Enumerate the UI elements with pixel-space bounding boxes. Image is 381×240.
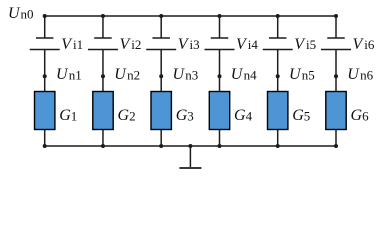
wire branch 5 top stub: [277, 16, 279, 38]
svg-text:Un4: Un4: [231, 66, 257, 83]
voltage source Vi1: [30, 38, 60, 50]
node n1 dot: [43, 74, 47, 78]
conductance G1 (resistor box): [35, 92, 55, 130]
wire branch 3 bottom segment: [160, 130, 162, 147]
ground stub wire: [189, 146, 191, 167]
svg-text:Vi2: Vi2: [120, 36, 142, 53]
junction branch 6 top: [334, 14, 338, 18]
junction ground: [188, 144, 192, 148]
junction branch 2 bottom: [101, 144, 105, 148]
wire branch 1 top stub: [44, 16, 46, 38]
junction branch 2 top: [101, 14, 105, 18]
conductance G3 (resistor box): [151, 92, 171, 130]
svg-text:G6: G6: [351, 107, 370, 124]
svg-text:Un3: Un3: [173, 66, 199, 83]
junction branch 1 bottom: [43, 144, 47, 148]
wire branch 3 middle segment: [160, 50, 162, 92]
svg-text:Un1: Un1: [56, 66, 82, 83]
voltage source Vi3: [146, 38, 176, 50]
svg-text:Vi6: Vi6: [353, 36, 375, 53]
svg-text:Vi1: Vi1: [61, 36, 83, 53]
junction branch 3 top: [159, 14, 163, 18]
conductance G5 (resistor box): [268, 92, 288, 130]
svg-text:Vi4: Vi4: [236, 36, 258, 53]
wire bottom rail ground net: [45, 145, 336, 147]
wire branch 2 bottom segment: [102, 130, 104, 147]
svg-text:Vi5: Vi5: [294, 36, 316, 53]
node n2 dot: [101, 74, 105, 78]
junction branch 6 bottom: [334, 144, 338, 148]
svg-text:G4: G4: [234, 107, 253, 124]
conductance G6 (resistor box): [326, 92, 346, 130]
wire branch 1 bottom segment: [44, 130, 46, 147]
junction branch 4 top: [218, 14, 222, 18]
node n5 dot: [276, 74, 280, 78]
svg-text:Un6: Un6: [347, 66, 373, 83]
voltage source Vi2: [88, 38, 118, 50]
junction branch 5 top: [276, 14, 280, 18]
wire branch 6 top stub: [335, 16, 337, 38]
conductance G4 (resistor box): [209, 92, 229, 130]
svg-text:Un2: Un2: [114, 66, 140, 83]
node n6 dot: [334, 74, 338, 78]
voltage source Vi6: [321, 38, 351, 50]
svg-text:Un5: Un5: [289, 66, 315, 83]
wire branch 4 middle segment: [219, 50, 221, 92]
wire branch 4 top stub: [219, 16, 221, 38]
wire branch 2 top stub: [102, 16, 104, 38]
conductance G2 (resistor box): [93, 92, 113, 130]
wire top rail node n0: [45, 15, 336, 17]
wire branch 6 bottom segment: [335, 130, 337, 147]
voltage source Vi5: [263, 38, 293, 50]
svg-text:Vi3: Vi3: [178, 36, 200, 53]
node n3 dot: [159, 74, 163, 78]
voltage source Vi4: [205, 38, 235, 50]
svg-text:G3: G3: [176, 107, 194, 124]
svg-text:G2: G2: [118, 107, 136, 124]
svg-text:G5: G5: [292, 107, 310, 124]
wire branch 5 middle segment: [277, 50, 279, 92]
junction branch 4 bottom: [218, 144, 222, 148]
wire branch 1 middle segment: [44, 50, 46, 92]
svg-text:Un0: Un0: [8, 5, 33, 22]
wire branch 6 middle segment: [335, 50, 337, 92]
junction branch 5 bottom: [276, 144, 280, 148]
wire branch 2 middle segment: [102, 50, 104, 92]
ground symbol: [179, 167, 201, 169]
wire branch 3 top stub: [160, 16, 162, 38]
node n4 dot: [218, 74, 222, 78]
junction branch 1 top: [43, 14, 47, 18]
wire branch 5 bottom segment: [277, 130, 279, 147]
junction branch 3 bottom: [159, 144, 163, 148]
wire branch 4 bottom segment: [219, 130, 221, 147]
svg-text:G1: G1: [59, 107, 77, 124]
